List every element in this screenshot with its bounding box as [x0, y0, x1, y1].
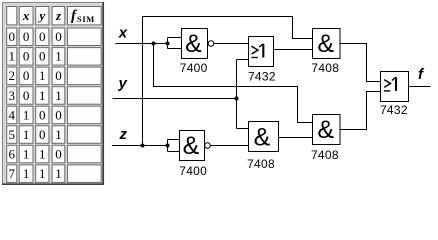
svg-text:7400: 7400 [180, 61, 208, 75]
truth table cells [7, 7, 102, 183]
U5 output inversion bubble [205, 143, 211, 149]
wire: y up to OR U2 lower input and down to AND U4 top input [237, 60, 249, 129]
svg-text:7432: 7432 [248, 69, 276, 83]
wire: U5 output to AND U4 lower input [210, 145, 248, 147]
wire: U2 output to AND U3 lower input [274, 49, 313, 51]
svg-text:1: 1 [39, 68, 46, 83]
truth table header text [22, 8, 95, 24]
label 7400 (U1) [180, 61, 208, 75]
svg-text:5: 5 [8, 127, 15, 142]
svg-text:1: 1 [55, 49, 62, 64]
svg-text:3: 3 [8, 88, 15, 103]
NAND gate U1 7400 [182, 29, 208, 59]
svg-text:x: x [118, 24, 128, 41]
input label x [118, 24, 128, 41]
svg-text:2: 2 [8, 68, 15, 83]
svg-text:0: 0 [23, 29, 30, 44]
node: x branch junction [152, 42, 156, 46]
svg-text:0: 0 [23, 49, 30, 64]
U1 output inversion bubble [208, 41, 214, 47]
svg-text:0: 0 [39, 127, 46, 142]
svg-text:0: 0 [39, 29, 46, 44]
wire: x down to AND U6 top input [154, 44, 313, 123]
svg-text:0: 0 [8, 29, 15, 44]
svg-text:4: 4 [8, 107, 15, 122]
svg-text:SIM: SIM [77, 14, 95, 24]
wire: U7 output f [409, 86, 431, 88]
wire: U1 output to OR U2 [214, 43, 249, 45]
label 7408 (U4) [247, 157, 275, 171]
node: x to U1 inputs junction [166, 42, 170, 46]
input label y [118, 75, 128, 92]
svg-text:&: & [185, 30, 202, 58]
node: z to U5 inputs junction [166, 144, 170, 148]
svg-text:1: 1 [23, 146, 30, 161]
svg-text:7400: 7400 [179, 164, 207, 178]
label 7432 (U7) [380, 103, 408, 117]
svg-text:1: 1 [8, 49, 15, 64]
wire: U3 output to OR U7 top input [340, 44, 381, 82]
svg-text:z: z [55, 8, 62, 23]
wire: U4 output to AND U6 lower input [279, 137, 313, 139]
svg-text:7: 7 [8, 166, 15, 181]
svg-text:z: z [119, 126, 128, 143]
svg-text:1: 1 [39, 146, 46, 161]
NAND gate U5 7400 [180, 131, 205, 161]
OR gate U7 7432 [381, 72, 409, 102]
svg-text:0: 0 [55, 29, 62, 44]
truth table frame [2, 2, 104, 185]
svg-text:7408: 7408 [311, 148, 339, 162]
wire: y input line [113, 98, 237, 100]
wire: x input line [116, 43, 168, 45]
svg-text:1: 1 [23, 127, 30, 142]
svg-text:1: 1 [55, 127, 62, 142]
label 7400 (U5) [179, 164, 207, 178]
OR gate U2 7432 [249, 37, 274, 67]
svg-text:y: y [37, 8, 45, 23]
svg-text:0: 0 [55, 146, 62, 161]
svg-text:1: 1 [23, 166, 30, 181]
svg-text:y: y [118, 75, 128, 92]
svg-text:x: x [22, 8, 30, 23]
svg-text:&: & [317, 116, 334, 144]
svg-text:0: 0 [39, 107, 46, 122]
wire: U6 output to OR U7 lower input [340, 92, 381, 130]
wire: z up and across top [143, 17, 313, 146]
svg-text:7408: 7408 [247, 157, 275, 171]
svg-text:1: 1 [23, 107, 30, 122]
svg-text:0: 0 [55, 68, 62, 83]
svg-text:7408: 7408 [311, 61, 339, 75]
svg-text:0: 0 [23, 88, 30, 103]
svg-text:1: 1 [55, 88, 62, 103]
AND gate U4 7408 [249, 122, 279, 152]
wire: U1 input tie bar and stubs [168, 38, 182, 49]
label 7408 (U6) [311, 148, 339, 162]
label 7432 (U2) [248, 69, 276, 83]
svg-text:1: 1 [39, 88, 46, 103]
label 7408 (U3) [311, 61, 339, 75]
wire: z input line [112, 145, 168, 147]
wire: U5 input tie bar and stubs [168, 140, 180, 152]
truth table data text [8, 29, 61, 181]
svg-text:7432: 7432 [380, 103, 408, 117]
svg-text:0: 0 [39, 49, 46, 64]
svg-text:1: 1 [55, 166, 62, 181]
svg-text:0: 0 [55, 107, 62, 122]
node: z branch junction [141, 144, 145, 148]
svg-text:f: f [418, 66, 425, 83]
svg-text:&: & [317, 30, 334, 58]
svg-text:1: 1 [39, 166, 46, 181]
output label f [418, 66, 425, 83]
svg-text:0: 0 [23, 68, 30, 83]
svg-text:&: & [183, 132, 200, 160]
svg-text:&: & [254, 123, 271, 151]
svg-text:6: 6 [8, 146, 15, 161]
AND gate U6 7408 [313, 115, 341, 145]
AND gate U3 7408 [313, 29, 341, 59]
input label z [119, 126, 128, 143]
node: y branch junction [235, 97, 239, 101]
